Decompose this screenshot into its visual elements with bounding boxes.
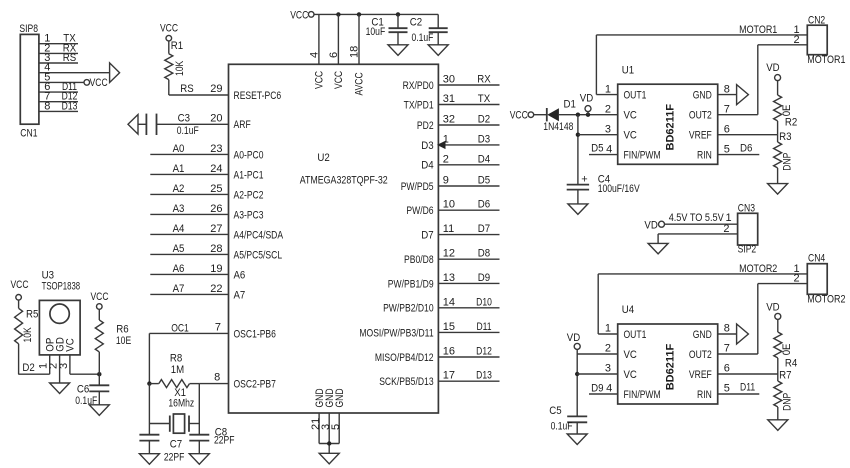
- pin label VC (U1): [624, 130, 637, 142]
- ground (U3): [50, 383, 70, 394]
- pin number 7 (U1): [724, 103, 730, 115]
- ground (U2): [319, 453, 339, 464]
- svg-text:16: 16: [443, 346, 455, 358]
- svg-text:MOTOR2: MOTOR2: [807, 294, 845, 306]
- svg-text:19: 19: [210, 263, 222, 275]
- wire net D4: [438, 164, 499, 166]
- net label D8: [478, 248, 490, 260]
- power VD (R2): [766, 62, 780, 81]
- svg-text:A5/PC5/SCL: A5/PC5/SCL: [234, 249, 283, 261]
- wire VCC pin 6: [337, 14, 339, 64]
- pin label PW/PD5: [401, 181, 434, 193]
- svg-text:D5: D5: [591, 143, 603, 155]
- svg-text:5: 5: [330, 424, 342, 430]
- wire net D12: [438, 356, 499, 358]
- svg-text:A0: A0: [173, 143, 185, 155]
- value 1N4148 (D1): [543, 121, 573, 133]
- pin number 2 (U1): [605, 103, 611, 115]
- driver U1 body: [618, 84, 718, 164]
- pin number 7: [44, 91, 50, 103]
- svg-text:A3: A3: [173, 203, 185, 215]
- svg-text:C6: C6: [77, 383, 89, 395]
- pin number 27: [210, 223, 222, 235]
- part number TSOP1838: [42, 281, 81, 293]
- pin number 4 (U1): [606, 143, 612, 155]
- svg-text:14: 14: [443, 296, 455, 308]
- pin number 25: [210, 183, 222, 195]
- svg-text:AVCC: AVCC: [354, 72, 366, 95]
- svg-text:8: 8: [44, 100, 50, 112]
- wire net A2: [150, 193, 228, 195]
- wire net D10: [438, 307, 499, 309]
- power VD (R4): [766, 301, 781, 319]
- svg-text:RS: RS: [63, 52, 76, 64]
- net label RS: [180, 83, 193, 95]
- svg-text:CN1: CN1: [20, 127, 37, 139]
- svg-text:6: 6: [724, 363, 730, 375]
- svg-text:7: 7: [724, 103, 730, 115]
- wire CN1 pin 3 net RS: [39, 62, 78, 64]
- pin label VC (U3): [65, 338, 77, 351]
- wire CN1 pin 2 net RX: [39, 52, 78, 54]
- svg-text:2: 2: [605, 343, 611, 355]
- svg-text:PW/D6: PW/D6: [406, 205, 433, 217]
- svg-text:D2: D2: [478, 114, 490, 126]
- svg-text:13: 13: [443, 272, 455, 284]
- svg-text:0.1uF: 0.1uF: [551, 421, 573, 433]
- svg-text:16Mhz: 16Mhz: [168, 397, 194, 409]
- svg-text:VCC: VCC: [160, 22, 178, 34]
- pin number 3 (U4): [605, 363, 611, 375]
- svg-text:MOTOR1: MOTOR1: [739, 24, 777, 36]
- label U1: [622, 64, 634, 76]
- pin number 8: [44, 100, 50, 112]
- svg-text:22: 22: [210, 283, 222, 295]
- svg-text:VD: VD: [580, 92, 593, 104]
- net label D5: [478, 175, 490, 187]
- svg-text:OUT1: OUT1: [624, 90, 647, 102]
- ground (R7): [768, 420, 788, 431]
- wire ARF left: [138, 123, 146, 125]
- pin label MOSI/PW/PB3/D11: [359, 327, 433, 339]
- svg-text:VCC: VCC: [314, 71, 326, 89]
- wire VCC pin 4: [318, 14, 320, 64]
- svg-text:R2: R2: [785, 116, 797, 128]
- svg-text:VCC: VCC: [10, 279, 28, 291]
- arrow in (ARF): [128, 115, 138, 135]
- svg-text:D9: D9: [591, 382, 603, 394]
- wire to U1 pin 3: [578, 134, 618, 136]
- pin label OUT1 (U1): [624, 90, 647, 102]
- pin label GND: [334, 388, 346, 407]
- svg-text:D9: D9: [478, 272, 490, 284]
- pin number 2: [44, 42, 50, 54]
- svg-text:VREF: VREF: [689, 369, 712, 381]
- net label D13: [476, 370, 492, 382]
- svg-text:U1: U1: [622, 64, 634, 76]
- net label D12: [476, 346, 492, 358]
- wire VC branch: [577, 115, 579, 185]
- pin label D7: [421, 230, 433, 242]
- svg-text:TX/PD1: TX/PD1: [404, 99, 434, 111]
- pin number 31: [443, 93, 455, 105]
- svg-text:OUT1: OUT1: [624, 329, 647, 341]
- ground (C6): [89, 405, 109, 416]
- pin label PD2: [417, 120, 434, 132]
- svg-text:11: 11: [443, 223, 454, 235]
- pin label VC (U1): [624, 110, 637, 122]
- wire VCC to D1: [534, 114, 547, 116]
- svg-text:4: 4: [606, 143, 612, 155]
- pin number 5: [330, 424, 342, 430]
- value 1M (R8): [171, 364, 184, 376]
- value 0.1uF (C3): [177, 125, 199, 137]
- resistor R1: [165, 41, 173, 95]
- svg-text:R1: R1: [171, 40, 183, 52]
- net label A3: [173, 203, 185, 215]
- svg-text:RX: RX: [477, 74, 491, 86]
- wire ARF to pin 20: [157, 123, 229, 125]
- svg-text:A6: A6: [234, 269, 246, 281]
- svg-text:VCC: VCC: [290, 9, 308, 21]
- net label A0: [173, 143, 185, 155]
- power VCC (D1): [510, 109, 534, 121]
- pin number 4: [44, 62, 50, 74]
- svg-text:RS: RS: [180, 83, 193, 95]
- pin number 8: [214, 371, 220, 383]
- pin label A6: [234, 269, 246, 281]
- svg-text:A4: A4: [173, 223, 185, 235]
- capacitor C7: [139, 435, 159, 454]
- capacitor C1: [389, 14, 408, 44]
- wire net D13: [438, 380, 499, 382]
- wire VD to CN3 pin 1: [664, 223, 737, 225]
- wire OSC2 to pin 8: [199, 383, 228, 385]
- svg-text:6: 6: [724, 123, 730, 135]
- label R6: [116, 324, 128, 336]
- wire net A6: [150, 273, 228, 275]
- pin number 8 (U4): [724, 323, 730, 335]
- svg-text:GND: GND: [693, 90, 712, 102]
- svg-text:VC: VC: [624, 130, 637, 142]
- svg-text:22PF: 22PF: [164, 451, 185, 463]
- net label OC1: [171, 322, 189, 334]
- pin number 4 (U4): [606, 383, 612, 395]
- capacitor C4 (polarized): [567, 173, 589, 204]
- svg-text:10: 10: [443, 199, 455, 211]
- svg-text:A2: A2: [173, 183, 185, 195]
- svg-text:4: 4: [308, 52, 320, 58]
- pin number 5: [44, 71, 50, 83]
- wire net D11: [438, 331, 499, 333]
- svg-text:VC: VC: [65, 338, 77, 351]
- svg-text:0E: 0E: [781, 344, 793, 356]
- svg-text:OC1: OC1: [171, 322, 189, 334]
- svg-text:RIN: RIN: [697, 150, 712, 162]
- svg-text:R3: R3: [779, 131, 791, 143]
- pin number 1: [443, 133, 449, 145]
- pin number 19: [210, 263, 222, 275]
- pin number 8 (U1): [724, 83, 730, 95]
- svg-text:D1: D1: [564, 99, 576, 111]
- resistor R2: [774, 81, 782, 135]
- label U2: [317, 152, 329, 164]
- net label D2: [478, 114, 490, 126]
- power VCC (R5): [10, 279, 28, 300]
- connector CN4: [807, 264, 827, 295]
- pin number 9: [443, 175, 449, 187]
- pin number 5 (U1): [724, 143, 730, 155]
- net label RS: [63, 52, 76, 64]
- pin number 3 (U1): [605, 123, 611, 135]
- svg-text:PD2: PD2: [417, 120, 434, 132]
- pin label D4: [421, 160, 433, 172]
- svg-text:A2-PC2: A2-PC2: [234, 189, 264, 201]
- net label D13: [62, 100, 78, 112]
- svg-text:OSC1-PB6: OSC1-PB6: [234, 328, 276, 340]
- wire OC1 net: [149, 333, 228, 383]
- pin number 3: [44, 52, 50, 64]
- net label RX: [63, 42, 77, 54]
- svg-text:RX/PD0: RX/PD0: [403, 80, 434, 92]
- net label A7: [173, 283, 185, 295]
- pin number 1 (U3): [38, 363, 50, 369]
- pin number 2 (U3): [48, 363, 60, 369]
- value 10K (R1): [174, 60, 186, 76]
- label R2: [785, 116, 797, 128]
- svg-text:FIN/PWM: FIN/PWM: [624, 389, 661, 401]
- svg-text:7: 7: [724, 343, 730, 355]
- net label RX: [477, 74, 491, 86]
- junction: [576, 113, 580, 117]
- svg-text:RESET-PC6: RESET-PC6: [234, 90, 282, 102]
- net label D7: [478, 223, 490, 235]
- svg-text:C2: C2: [410, 16, 422, 28]
- svg-text:10E: 10E: [116, 335, 131, 347]
- label C3: [178, 113, 190, 125]
- part number BD6211F (U4): [665, 344, 677, 391]
- svg-text:R8: R8: [170, 353, 182, 365]
- wire net A1: [150, 173, 228, 175]
- label SIP8: [19, 23, 38, 35]
- svg-text:VCC: VCC: [510, 109, 528, 121]
- svg-text:D7: D7: [421, 230, 433, 242]
- pin number 7: [215, 322, 221, 334]
- label R5: [26, 308, 38, 320]
- svg-text:D5: D5: [478, 175, 490, 187]
- wire GND pin 21: [318, 413, 320, 444]
- label C4: [598, 173, 610, 185]
- pin number 30: [443, 74, 455, 86]
- svg-text:20: 20: [210, 113, 222, 125]
- svg-text:32: 32: [443, 114, 455, 126]
- wire GND join: [319, 444, 339, 454]
- pin number 14: [443, 296, 455, 308]
- net label D4: [478, 153, 490, 165]
- label CN4: [808, 253, 825, 265]
- svg-text:A3-PC3: A3-PC3: [234, 209, 264, 221]
- svg-text:TSOP1838: TSOP1838: [42, 281, 81, 293]
- pin label A7: [234, 289, 246, 301]
- svg-text:D10: D10: [476, 296, 492, 308]
- svg-text:MOTOR1: MOTOR1: [807, 54, 845, 66]
- wire net D8: [438, 258, 499, 260]
- net label D2: [22, 362, 34, 374]
- svg-text:2: 2: [723, 223, 729, 235]
- svg-text:1N4148: 1N4148: [543, 121, 573, 133]
- wire VD to VC pins: [577, 349, 618, 416]
- pin number 26: [210, 203, 222, 215]
- junction: [97, 372, 101, 376]
- pin number 11: [443, 223, 454, 235]
- pin number 6 (U1): [724, 123, 730, 135]
- part number BD6211F (U1): [665, 104, 677, 151]
- pin label RIN (U4): [697, 389, 712, 401]
- svg-text:VCC: VCC: [90, 77, 108, 89]
- junction: [336, 12, 340, 16]
- svg-text:C3: C3: [178, 113, 190, 125]
- pin number 3 (U3): [58, 363, 70, 369]
- wire net D6: [438, 209, 499, 211]
- value 0.1uF (C5): [551, 421, 573, 433]
- svg-text:D4: D4: [478, 153, 490, 165]
- svg-text:VC: VC: [624, 369, 637, 381]
- pin number 10: [443, 199, 455, 211]
- svg-text:DNP: DNP: [781, 153, 793, 171]
- svg-text:12: 12: [443, 248, 455, 260]
- svg-text:VCC: VCC: [90, 291, 108, 303]
- ground (R3): [768, 184, 788, 195]
- pin number 1 (CN3): [725, 212, 731, 224]
- capacitor C5: [567, 416, 587, 434]
- pin number 4: [308, 52, 320, 58]
- value 100uF/16V (C4): [598, 183, 641, 195]
- net label A4: [173, 223, 185, 235]
- svg-text:4: 4: [606, 383, 612, 395]
- svg-text:A4/PC4/SDA: A4/PC4/SDA: [234, 229, 284, 241]
- capacitor C3: [146, 114, 156, 135]
- net label A6: [173, 263, 185, 275]
- net label D3: [478, 133, 490, 145]
- net label D11: [62, 81, 77, 93]
- wire crystal left branch: [149, 384, 169, 435]
- svg-text:D7: D7: [478, 223, 490, 235]
- resistor R4: [774, 319, 782, 374]
- net label TX: [478, 93, 491, 105]
- wire CN1 pin 7 net D12: [39, 101, 78, 103]
- svg-text:A7: A7: [173, 283, 185, 295]
- pin label OUT1 (U4): [624, 329, 647, 341]
- pin number 2: [443, 153, 449, 165]
- pin label OUT2 (U1): [689, 110, 712, 122]
- net label MOTOR2: [739, 263, 777, 275]
- svg-text:PW/PB2/D10: PW/PB2/D10: [383, 303, 434, 315]
- pin number 6 (U4): [724, 363, 730, 375]
- value 0E (R4): [781, 344, 793, 356]
- pin number 7 (U4): [724, 343, 730, 355]
- pin label GND: [314, 388, 326, 407]
- value 10uF (C1): [366, 26, 386, 38]
- pin number 22: [210, 283, 222, 295]
- net label D11: [740, 382, 755, 394]
- part number ATMEGA328TQPF-32: [300, 175, 388, 187]
- svg-text:BD6211F: BD6211F: [665, 104, 677, 151]
- svg-text:2: 2: [605, 103, 611, 115]
- value 10K (R5): [22, 327, 34, 343]
- pin number 20: [210, 113, 222, 125]
- resistor R3: [774, 135, 782, 184]
- svg-text:26: 26: [210, 203, 222, 215]
- svg-text:D6: D6: [478, 199, 490, 211]
- resistor R6: [95, 309, 103, 374]
- svg-text:28: 28: [210, 243, 222, 255]
- svg-text:TX: TX: [478, 93, 491, 105]
- wire U3 pin 3: [70, 355, 99, 374]
- label CN2: [808, 14, 825, 26]
- svg-text:D4: D4: [421, 160, 433, 172]
- svg-text:GND: GND: [693, 329, 712, 341]
- wire net A5: [150, 253, 228, 255]
- wire net A3: [150, 213, 228, 215]
- svg-text:VCC: VCC: [333, 71, 345, 89]
- ground (C7): [139, 454, 159, 465]
- svg-text:17: 17: [443, 370, 455, 382]
- wire U3 pin 1 to D2 net: [18, 355, 49, 374]
- pin label SCK/PB5/D13: [379, 376, 433, 388]
- svg-text:10K: 10K: [174, 60, 186, 76]
- svg-text:SIP8: SIP8: [19, 23, 38, 35]
- net label D6: [740, 143, 752, 155]
- svg-text:1: 1: [605, 323, 611, 335]
- connector CN1 (SIP8): [20, 34, 39, 124]
- junction: [576, 133, 580, 137]
- svg-text:MOTOR2: MOTOR2: [739, 263, 777, 275]
- MCU U2 body: [229, 64, 439, 413]
- resistor R7: [774, 374, 782, 420]
- pin number 32: [443, 114, 455, 126]
- wire CN1 pin 6 net D11: [39, 91, 78, 93]
- pin label VREF (U4): [689, 369, 712, 381]
- ground (C2): [428, 45, 448, 56]
- svg-text:D6: D6: [740, 143, 752, 155]
- wire AVCC pin 18: [358, 14, 360, 64]
- svg-text:VD: VD: [766, 62, 779, 74]
- pin number 6: [44, 81, 50, 93]
- svg-text:CN4: CN4: [808, 253, 825, 265]
- wire net A7: [150, 293, 228, 295]
- svg-text:R7: R7: [779, 370, 791, 382]
- svg-text:100uF/16V: 100uF/16V: [598, 183, 641, 195]
- value 0E (R2): [781, 105, 793, 117]
- svg-text:D13: D13: [62, 100, 78, 112]
- terminal VCC (CN1 pin 5): [84, 80, 90, 86]
- resistor R5: [15, 300, 23, 374]
- pin label A0-PC0: [234, 149, 264, 161]
- svg-text:SCK/PB5/D13: SCK/PB5/D13: [379, 376, 433, 388]
- net label TX: [63, 33, 76, 45]
- svg-text:PB0/D8: PB0/D8: [404, 254, 434, 266]
- pin label VC (U4): [624, 369, 637, 381]
- svg-text:23: 23: [210, 143, 222, 155]
- label C1: [371, 16, 383, 28]
- pin label GND (U1): [693, 90, 712, 102]
- svg-text:D13: D13: [476, 370, 492, 382]
- ground (C8): [189, 454, 209, 465]
- value DNP (R3): [781, 153, 793, 171]
- svg-text:8: 8: [724, 83, 730, 95]
- svg-text:10uF: 10uF: [366, 26, 386, 38]
- pin label FIN/PWM (U1): [624, 150, 661, 162]
